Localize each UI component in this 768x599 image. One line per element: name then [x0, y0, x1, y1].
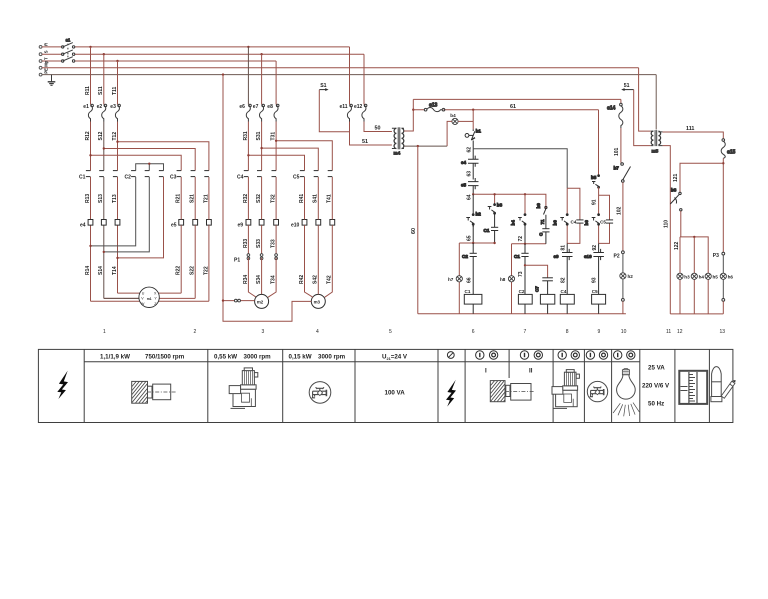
junction rail R x90.5: [89, 46, 91, 48]
branch b9/C3 right of col2: [536, 203, 550, 244]
svg-text:b1: b1: [476, 128, 482, 133]
svg-text:62: 62: [466, 147, 472, 153]
lamp h2: [620, 273, 626, 279]
fuse e3: [115, 104, 120, 121]
group C5: feed from 61: [598, 110, 600, 175]
svg-text:h8: h8: [500, 277, 506, 282]
pump icon cell3: [229, 368, 258, 409]
svg-text:C1: C1: [514, 254, 520, 259]
svg-text:2: 2: [194, 329, 197, 335]
coil C1: [464, 294, 482, 304]
m2 columns mid: [248, 177, 276, 255]
svg-text:b9: b9: [536, 203, 541, 209]
svg-text:e1: e1: [83, 104, 89, 110]
svg-text:121: 121: [673, 173, 679, 182]
svg-text:111: 111: [686, 126, 694, 132]
wire lamp left leg: [447, 121, 452, 146]
contact e10 NC: [584, 243, 604, 294]
wire 122: [680, 211, 708, 273]
wire C2a return: [91, 177, 136, 246]
svg-text:h5: h5: [713, 275, 719, 280]
svg-text:e15: e15: [727, 150, 736, 156]
svg-text:e3: e3: [110, 104, 116, 110]
lightning bolt cell6: [446, 380, 456, 407]
bullet-pencil icon cell13: [711, 367, 736, 402]
svg-text:S12: S12: [98, 131, 104, 140]
fuse e15: [721, 139, 735, 159]
wire to C3 R21: [91, 155, 182, 170]
wire 72 node: [524, 224, 526, 244]
wire R12 column: [90, 122, 92, 302]
svg-text:e10: e10: [291, 223, 300, 229]
lamp h4 column: [693, 237, 695, 314]
svg-text:82: 82: [560, 277, 566, 283]
svg-text:T: T: [44, 57, 49, 60]
pushbutton b2 NO: [466, 194, 481, 227]
wire R11 drop: [90, 47, 92, 105]
wire e15 to 121 junction: [722, 158, 724, 252]
svg-text:Mp: Mp: [44, 60, 49, 66]
fuse e1: [88, 104, 93, 121]
wire rail S (L2): [42, 53, 364, 55]
svg-text:3: 3: [262, 329, 265, 335]
svg-text:C4: C4: [561, 289, 567, 294]
svg-text:e4: e4: [80, 223, 86, 229]
junction 73 branch: [524, 264, 526, 266]
node L1 start circle: [39, 46, 42, 49]
thermal e5: [179, 220, 184, 226]
svg-text:h6: h6: [728, 275, 734, 280]
wire T11 drop: [117, 61, 119, 105]
contact C1 on col2: [514, 244, 529, 295]
svg-text:C5: C5: [592, 289, 598, 294]
node PE start circle: [39, 73, 42, 76]
pushbutton b4 NO col2: [511, 214, 526, 228]
motor-gear icon I/II: [490, 381, 535, 402]
svg-text:10: 10: [621, 329, 627, 335]
branch b3/C1: [494, 194, 496, 203]
node 51 arrow: [621, 83, 634, 91]
svg-text:71: 71: [540, 219, 545, 225]
svg-text:e9: e9: [554, 254, 560, 259]
contact e4 NC: [461, 149, 479, 180]
wire lamp to riser: [458, 120, 473, 122]
fuse e8: [274, 104, 279, 121]
svg-text:T12: T12: [112, 132, 118, 141]
wire e7 drop: [261, 54, 263, 104]
svg-text:b8: b8: [671, 188, 677, 193]
motor-gear icon m1: [132, 381, 176, 403]
svg-text:50: 50: [375, 125, 381, 131]
wire S11 drop: [103, 54, 105, 104]
group C4: parallel loop: [567, 188, 580, 243]
wire ladder col1 upper: [472, 110, 474, 130]
svg-text:C1: C1: [79, 175, 86, 181]
circled slash header cell6: [447, 352, 454, 359]
wire 65 node: [472, 224, 474, 243]
svg-text:h3: h3: [684, 275, 690, 280]
contactor C3 contacts: [177, 171, 182, 177]
svg-text:P1: P1: [234, 258, 240, 264]
wire 73 branch to C7: [525, 265, 548, 278]
C2 star bridge: [136, 164, 164, 171]
svg-text:R13: R13: [85, 194, 91, 203]
svg-text:C7: C7: [535, 286, 540, 292]
svg-text:e7: e7: [253, 104, 259, 110]
svg-text:e9: e9: [238, 223, 244, 229]
svg-text:e10: e10: [584, 254, 592, 259]
wire S31 to m3: [262, 148, 319, 171]
svg-text:C2: C2: [125, 175, 132, 181]
svg-text:C1: C1: [484, 228, 490, 233]
pushbutton b8g NO: [584, 214, 599, 226]
svg-text:3000 rpm: 3000 rpm: [244, 354, 272, 361]
fuse e12: [362, 104, 367, 121]
transformer m4: [392, 127, 404, 155]
lamp h5 column: [707, 279, 709, 314]
wire R31 to m3: [248, 155, 304, 170]
column dividers: [84, 349, 709, 422]
wire m4 secondary bottom: [404, 145, 447, 147]
svg-text:b7: b7: [614, 166, 620, 171]
transformer m5: [651, 130, 663, 153]
m2 columns upper: [248, 122, 276, 171]
wire e12 drop: [363, 54, 365, 104]
svg-text:81: 81: [561, 245, 567, 251]
svg-text:61: 61: [510, 104, 516, 110]
contact C2: [462, 243, 477, 294]
svg-text:m5: m5: [652, 149, 659, 154]
fuse e7: [260, 104, 265, 121]
svg-text:4: 4: [316, 329, 319, 335]
connector m2 neutral: [234, 299, 237, 302]
lamp h6: [720, 273, 726, 279]
main switch a1: [62, 37, 75, 62]
svg-text:6: 6: [472, 329, 475, 335]
svg-text:C4: C4: [571, 219, 577, 224]
svg-text:8: 8: [566, 329, 569, 335]
wire m1 left feeds: [91, 293, 141, 301]
svg-text:25 VA: 25 VA: [648, 364, 665, 371]
svg-text:e13: e13: [429, 102, 438, 108]
wire m4 secondary top riser: [404, 99, 413, 131]
pushbutton b3 NO: [488, 203, 503, 217]
svg-text:122: 122: [674, 241, 680, 250]
svg-text:PE: PE: [44, 68, 49, 74]
svg-text:C1: C1: [465, 289, 471, 294]
svg-text:e4: e4: [461, 160, 467, 165]
svg-text:e5: e5: [461, 183, 467, 188]
svg-text:65: 65: [466, 235, 472, 241]
junction 65/b3: [493, 242, 495, 244]
wire to C3 T21: [118, 142, 209, 171]
svg-text:92: 92: [592, 245, 598, 251]
contact C5 aux: [606, 220, 613, 223]
node L3 start circle: [39, 60, 42, 63]
wire PE drop: [655, 75, 657, 130]
wire 65 branch to h7: [459, 242, 494, 244]
svg-text:13: 13: [720, 329, 726, 335]
svg-text:b5: b5: [591, 175, 597, 180]
junction 64: [472, 193, 474, 195]
wire lamp bottom rail: [670, 313, 723, 315]
junction 61 riser: [412, 109, 414, 111]
svg-text:S22: S22: [190, 266, 196, 275]
svg-text:h4: h4: [699, 275, 705, 280]
svg-text:S1: S1: [320, 83, 326, 89]
svg-text:9: 9: [598, 329, 601, 335]
svg-text:U21=24 V: U21=24 V: [382, 354, 408, 361]
svg-text:C2: C2: [519, 289, 525, 294]
svg-text:50 Hz: 50 Hz: [648, 400, 664, 407]
wire 111: [663, 132, 724, 139]
wire T31 to m3: [276, 141, 332, 171]
wire rail PE: [42, 74, 656, 76]
pushbutton b5 NO: [591, 175, 599, 189]
svg-text:e14: e14: [607, 106, 616, 112]
svg-text:7: 7: [524, 329, 527, 335]
svg-text:750/1500 rpm: 750/1500 rpm: [145, 354, 185, 361]
svg-text:R12: R12: [85, 131, 91, 140]
lamp h1 (b4): [452, 118, 458, 124]
wire top line to e14: [413, 98, 621, 100]
svg-text:100 VA: 100 VA: [385, 390, 406, 397]
wire 110 m5 secondary bottom: [663, 146, 671, 314]
node S1 arrow: [319, 83, 328, 91]
svg-text:91: 91: [592, 199, 598, 205]
junction 60: [417, 145, 419, 147]
svg-text:60: 60: [411, 228, 417, 234]
contact e9 NC: [554, 243, 573, 294]
wire to C3 S21: [104, 149, 195, 171]
fuse e6: [246, 104, 251, 121]
m3 columns: [305, 177, 333, 297]
svg-text:64: 64: [466, 194, 472, 200]
svg-text:220 V/6 V: 220 V/6 V: [642, 382, 670, 389]
wire bottom rail control: [418, 313, 626, 315]
wire rail R (L1): [42, 46, 350, 48]
svg-text:m2: m2: [257, 300, 264, 305]
svg-text:S14: S14: [98, 266, 104, 275]
contact C4 aux: [576, 220, 583, 223]
node N start circle: [39, 66, 42, 69]
svg-text:a1: a1: [66, 37, 71, 42]
fuse e11: [347, 104, 352, 121]
svg-text:m1: m1: [147, 297, 152, 301]
junction rail S x261.6: [260, 53, 262, 55]
wire C2c return: [118, 177, 164, 258]
svg-text:63: 63: [466, 171, 472, 177]
wire 62 rail to right: [473, 149, 567, 188]
svg-text:R14: R14: [85, 266, 91, 275]
svg-text:h2: h2: [628, 274, 634, 279]
lamp h8 column: [511, 244, 513, 314]
svg-text:m4: m4: [394, 151, 401, 156]
svg-text:e11: e11: [340, 104, 348, 110]
ground symbol: [48, 75, 56, 86]
wire rail N: [42, 67, 639, 69]
svg-text:e5: e5: [171, 223, 177, 229]
svg-text:U: U: [142, 291, 145, 295]
svg-text:93: 93: [592, 277, 598, 283]
motor m2: [255, 294, 269, 308]
lightning bolt cell1: [57, 371, 68, 399]
svg-text:e6: e6: [239, 104, 245, 110]
svg-text:b2: b2: [476, 212, 482, 217]
wire 51 e11 to m4: [350, 122, 392, 146]
svg-text:b4: b4: [511, 220, 516, 226]
terminal strip icon cell12: [679, 371, 707, 404]
wire e6 drop: [247, 47, 249, 105]
fuse e2: [102, 104, 107, 121]
svg-text:66: 66: [466, 277, 472, 283]
svg-text:T14: T14: [112, 266, 118, 275]
svg-text:R11: R11: [85, 86, 91, 95]
junction rail T x117.5: [116, 60, 118, 62]
svg-text:C5: C5: [600, 219, 606, 224]
svg-text:C4: C4: [237, 175, 244, 181]
half divider I/II: [508, 349, 510, 378]
lamp h7 column: [458, 243, 460, 314]
C5 parallel loop: [599, 187, 610, 243]
motor m1: [139, 287, 159, 307]
svg-text:P3: P3: [713, 253, 719, 259]
contact e5 NC: [461, 178, 479, 194]
header underline: [84, 361, 640, 363]
node L2 start circle: [39, 53, 42, 56]
junction rail S x103.8: [103, 53, 105, 55]
bottom reference numerals: [103, 329, 725, 335]
wire S1 to 51: [319, 90, 349, 132]
lamp h3 column: [679, 237, 681, 314]
contactor C1 contacts: [86, 171, 91, 177]
svg-text:e8: e8: [267, 104, 273, 110]
wire 72 branch: [512, 243, 546, 245]
svg-text:T13: T13: [112, 194, 118, 203]
selector b8: [670, 188, 682, 212]
svg-text:b4: b4: [450, 113, 456, 118]
table frame: [38, 349, 733, 422]
pushbutton b6 NO: [553, 214, 568, 226]
wire 62 node: [472, 141, 474, 149]
svg-text:II: II: [529, 368, 533, 375]
svg-text:T11: T11: [112, 86, 118, 95]
svg-text:b6: b6: [553, 220, 558, 226]
wire T12 column: [117, 122, 119, 294]
contactor C2 contacts: [131, 171, 136, 177]
coil C2: [518, 294, 532, 304]
wire rail T (L3): [42, 60, 276, 62]
svg-text:51: 51: [362, 139, 368, 145]
junction rail R x248.4: [247, 46, 249, 48]
wire neutral drop to motors: [223, 75, 311, 322]
wire 102: [622, 182, 624, 251]
wire 61 line: [413, 109, 598, 111]
svg-text:5: 5: [389, 329, 392, 335]
contactor C4 contacts: [244, 171, 249, 177]
svg-text:11: 11: [666, 329, 671, 335]
svg-text:h7: h7: [448, 277, 454, 282]
svg-text:R22: R22: [176, 266, 182, 275]
wire 121: [680, 163, 723, 192]
contactor C5 contacts: [300, 171, 305, 177]
svg-text:P2: P2: [614, 254, 620, 260]
svg-text:R: R: [44, 43, 49, 46]
wire 60 down: [417, 146, 419, 314]
capacitor C7: [535, 278, 553, 295]
wire C2b return: [104, 177, 150, 252]
coil C4: [560, 294, 574, 304]
svg-text:C5: C5: [293, 175, 300, 181]
svg-text:0,55 kW: 0,55 kW: [214, 354, 237, 361]
svg-text:102: 102: [616, 206, 622, 215]
wire 51 to m5 primary bottom: [634, 90, 651, 146]
bulb icon cell10: [613, 368, 639, 416]
svg-text:1: 1: [103, 329, 106, 335]
svg-text:e12: e12: [354, 104, 363, 110]
contact C1 aux: [484, 216, 499, 243]
svg-text:b6: b6: [584, 220, 589, 226]
svg-text:3000 rpm: 3000 rpm: [318, 354, 346, 361]
fuse e14: [607, 99, 623, 128]
svg-text:S: S: [44, 50, 49, 53]
wire 50 e12 to m4: [364, 122, 392, 132]
svg-text:110: 110: [663, 220, 669, 228]
svg-text:1,1/1,9 kW: 1,1/1,9 kW: [100, 354, 130, 361]
junction rail PE x223: [222, 73, 224, 75]
svg-text:e2: e2: [97, 104, 103, 110]
col2 drop from 64: [524, 193, 526, 195]
svg-text:S11: S11: [98, 86, 104, 95]
svg-text:b3: b3: [497, 203, 503, 208]
svg-text:C3: C3: [170, 175, 177, 181]
svg-text:I: I: [485, 368, 487, 375]
faucet icon cell4: [309, 382, 331, 404]
I/O header icons cell7: [476, 351, 484, 359]
C3 columns: [181, 177, 209, 301]
coil C7: [540, 294, 554, 304]
svg-text:0,15 kW: 0,15 kW: [289, 354, 312, 361]
svg-text:73: 73: [518, 271, 524, 277]
thermal e4: [88, 220, 93, 226]
faucet icon cell9: [587, 381, 607, 401]
wire e8 drop: [275, 61, 277, 105]
svg-text:W: W: [141, 302, 145, 306]
svg-text:C2: C2: [462, 254, 468, 259]
wire e11 drop: [349, 47, 351, 105]
svg-text:12: 12: [677, 329, 683, 335]
wire 101: [620, 128, 622, 163]
wire 64 rail: [473, 194, 546, 209]
svg-text:101: 101: [614, 147, 620, 156]
pushbutton b1 NC: [465, 128, 481, 140]
svg-text:m3: m3: [314, 300, 321, 305]
svg-text:T22: T22: [203, 266, 209, 275]
coil C5: [592, 294, 606, 304]
wire m1 right feeds: [158, 293, 209, 301]
connector P1: [247, 254, 250, 260]
switch b7: [614, 163, 631, 183]
wire N to m5 primary top: [639, 68, 651, 131]
pump icon cell8: [552, 370, 579, 409]
svg-text:72: 72: [518, 236, 524, 242]
socket P3: [722, 252, 725, 255]
motor m3: [311, 294, 325, 308]
wire S12 column: [103, 122, 105, 299]
socket P2: [622, 251, 625, 254]
svg-text:51: 51: [624, 83, 630, 89]
fuse e13: [424, 102, 445, 111]
